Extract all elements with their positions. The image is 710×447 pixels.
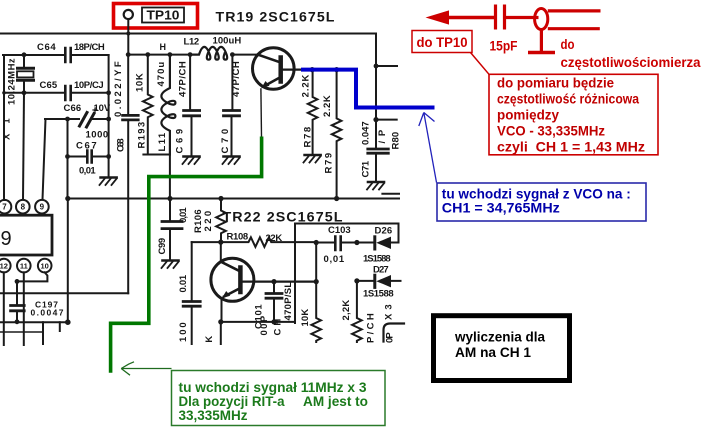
svg-text:R78: R78	[302, 127, 313, 148]
wire pin9 vertical	[43, 119, 46, 200]
svg-text:00P: 00P	[259, 315, 270, 335]
svg-text:470P/SL: 470P/SL	[283, 282, 294, 321]
wire C68 down long	[127, 120, 129, 293]
svg-text:9: 9	[1, 228, 12, 250]
wire stub x43	[42, 322, 44, 344]
red pointer line	[471, 53, 490, 75]
wire pin11 down	[23, 272, 25, 345]
svg-text:AM na CH 1: AM na CH 1	[455, 345, 531, 360]
transistor TR19	[252, 48, 313, 90]
wire pin8 vertical	[23, 93, 24, 200]
svg-text:C66: C66	[64, 103, 82, 114]
wire diode row y242.5	[314, 240, 399, 245]
capacitor C100 0.01/100	[178, 242, 200, 344]
svg-text:C99: C99	[157, 238, 168, 255]
inductor L12 100uH	[184, 36, 242, 60]
diode D26 1S1588	[363, 226, 393, 265]
svg-text:1S1588: 1S1588	[363, 254, 391, 265]
svg-text:H: H	[160, 42, 167, 52]
svg-text:tu wchodzi sygnał 11MHz x 3: tu wchodzi sygnał 11MHz x 3	[179, 380, 367, 395]
red label do TP10	[412, 31, 472, 53]
svg-text:czyli CH 1 = 1,43 MHz: czyli CH 1 = 1,43 MHz	[497, 139, 645, 154]
ground R78	[304, 155, 321, 163]
wire R193/L11 bottom row	[143, 155, 170, 199]
svg-text:D26: D26	[375, 226, 393, 237]
svg-text:0P: 0P	[385, 332, 396, 343]
svg-text:/P: /P	[377, 129, 388, 143]
ground left chain	[100, 178, 117, 186]
svg-text:2,2K: 2,2K	[341, 300, 352, 321]
wire x108.6 down + ground	[106, 90, 111, 177]
pin 9	[35, 200, 49, 214]
red probe jack	[528, 9, 601, 53]
red probe drawing: arrow	[426, 10, 497, 24]
wire TR19 emitter thin down	[260, 89, 263, 137]
ground C99	[162, 261, 179, 269]
wire row y332	[0, 331, 43, 333]
wire left row B y92.8	[4, 92, 109, 94]
node collector junctions	[310, 67, 340, 72]
wire C67 row y156.5	[65, 154, 111, 159]
wire row y322	[0, 321, 68, 323]
svg-text:220: 220	[203, 211, 214, 232]
resistor R79 2.2K	[322, 70, 341, 199]
svg-text:100uH: 100uH	[213, 36, 242, 47]
resistor 10K vertical	[300, 243, 321, 343]
svg-text:C103: C103	[328, 225, 351, 236]
svg-text:do TP10: do TP10	[417, 35, 468, 50]
IC box U1	[0, 215, 52, 255]
capacitor C66 electrolytic	[64, 103, 111, 141]
svg-text:9: 9	[40, 203, 45, 212]
capacitor C101 470P/SL	[253, 282, 294, 330]
node C71 top	[373, 117, 396, 122]
svg-text:CH1 = 34,765MHz: CH1 = 34,765MHz	[442, 201, 560, 216]
label P/CH	[366, 313, 377, 343]
svg-text:D27: D27	[373, 265, 389, 276]
svg-text:33,335MHz: 33,335MHz	[179, 408, 248, 423]
wire feedback top row y223.5	[295, 224, 399, 243]
wire bottom bus y293.3	[0, 292, 128, 294]
capacitor C64	[37, 42, 105, 62]
diode D27 1S1588	[363, 265, 394, 300]
svg-text:7: 7	[2, 203, 7, 212]
svg-text:0,01: 0,01	[79, 166, 96, 177]
svg-text:15pF: 15pF	[490, 39, 518, 54]
svg-text:częstotliwość różnicowa: częstotliwość różnicowa	[497, 92, 639, 107]
svg-text:11: 11	[20, 262, 28, 271]
inductor L11 470u	[156, 55, 175, 155]
wire green signal trace	[111, 137, 262, 373]
transistor TR22	[211, 242, 316, 322]
svg-text:0.01: 0.01	[178, 274, 189, 292]
svg-text:R80: R80	[391, 132, 402, 150]
svg-text:Dla pozycji RIT-a: Dla pozycji RIT-a	[179, 394, 285, 409]
svg-text:P/CH: P/CH	[366, 313, 377, 343]
svg-text:pomiędzy: pomiędzy	[497, 108, 559, 123]
pin 12	[0, 259, 11, 273]
svg-text:do: do	[561, 37, 575, 52]
red TP10 frame	[114, 4, 198, 29]
labels 00P CH	[259, 315, 284, 335]
capacitor C67	[76, 141, 97, 177]
svg-text:TR22 2SC1675L: TR22 2SC1675L	[223, 209, 344, 224]
capacitor C99 0,01	[157, 199, 189, 260]
wire C66 row y119	[45, 117, 111, 122]
resistor R106 220	[193, 199, 226, 243]
blue note box	[437, 183, 646, 221]
svg-text:C70: C70	[220, 129, 231, 154]
wire row A corner down to row B	[108, 55, 110, 93]
svg-text:0.022/YF: 0.022/YF	[113, 61, 124, 117]
svg-text:12: 12	[0, 262, 8, 271]
green note box	[172, 371, 386, 426]
svg-text:R79: R79	[324, 153, 335, 174]
pin 10	[38, 259, 52, 273]
pin 8	[16, 200, 30, 214]
svg-text:10P/CJ: 10P/CJ	[74, 80, 104, 91]
ground C69	[183, 157, 200, 165]
svg-text:X 3: X 3	[384, 304, 395, 320]
svg-text:2.2K: 2.2K	[322, 95, 333, 117]
svg-text:2.2K: 2.2K	[301, 74, 312, 97]
svg-text:L12: L12	[184, 37, 200, 48]
transistor label TR19	[216, 10, 336, 25]
svg-text:do pomiaru będzie: do pomiaru będzie	[497, 76, 614, 91]
wire x67.8 bus-to-row322	[65, 199, 71, 326]
svg-text:R193: R193	[137, 122, 148, 149]
node bus stub y66	[374, 64, 397, 69]
svg-text:1S1588: 1S1588	[363, 289, 394, 300]
svg-text:R108: R108	[227, 232, 249, 243]
wire stub x60	[59, 322, 61, 331]
svg-text:tu wchodzi sygnał z VCO na :: tu wchodzi sygnał z VCO na :	[442, 187, 631, 202]
capacitor C71 0.047/P	[361, 120, 389, 181]
wire bus right corner down	[375, 34, 377, 120]
svg-text:K: K	[204, 335, 215, 342]
wire main mid bus y198.5	[65, 196, 399, 201]
wire emitter stub down + K label	[204, 322, 221, 344]
svg-text:10K: 10K	[300, 309, 311, 327]
svg-text:L11: L11	[157, 132, 168, 151]
transistor label TR22	[223, 209, 344, 224]
wire base row + resistor R108 22K	[192, 232, 317, 247]
wire D27 row y280.9	[354, 278, 400, 283]
node crystal top	[22, 52, 27, 57]
svg-text:8: 8	[21, 203, 26, 212]
capacitor C70 47P/CH	[220, 55, 242, 156]
svg-text:TP10: TP10	[147, 9, 180, 23]
resistor R80 label and stub	[382, 132, 401, 194]
red capacitor 15pF	[496, 5, 539, 30]
red label 15pF	[490, 39, 518, 54]
wire oscillator row y54.6	[128, 52, 258, 57]
wire top supply bus	[0, 33, 376, 35]
resistor R193 10K	[135, 55, 153, 155]
wire feedback vertical x293.3	[294, 224, 296, 324]
black note box	[434, 316, 570, 381]
svg-text:VCO - 33,335MHz: VCO - 33,335MHz	[497, 123, 605, 138]
capacitor C103 0,01	[324, 225, 352, 265]
wire pin12 down	[3, 272, 5, 345]
svg-text:C67: C67	[76, 141, 97, 152]
resistor 2.2K vertical	[341, 281, 362, 342]
wire green arrow thin	[121, 362, 171, 375]
pin 11	[17, 259, 31, 273]
svg-text:470u: 470u	[156, 62, 167, 87]
red label do czestotliwosciomierza	[561, 37, 701, 70]
svg-text:10K: 10K	[135, 73, 146, 92]
svg-text:wyliczenia dla: wyliczenia dla	[454, 330, 545, 345]
svg-text:22K: 22K	[266, 233, 283, 244]
wire left row A y55	[3, 54, 109, 56]
pin 7	[0, 200, 11, 214]
red note box	[489, 74, 658, 155]
connector corner X3	[384, 304, 405, 343]
svg-text:częstotliwościomierza: częstotliwościomierza	[561, 55, 701, 70]
svg-text:TR19 2SC1675L: TR19 2SC1675L	[216, 10, 336, 25]
wire mid vertical x67.5	[67, 119, 69, 199]
svg-text:18P/CH: 18P/CH	[74, 42, 105, 53]
svg-text:0.047: 0.047	[361, 121, 372, 145]
wire TP10/C68 vertical	[126, 52, 131, 115]
test point TP10	[124, 8, 184, 55]
svg-text:C69: C69	[174, 129, 185, 154]
svg-text:C68: C68	[115, 138, 126, 152]
svg-text:C71: C71	[361, 160, 372, 177]
capacitor C68	[113, 61, 138, 152]
svg-text:47P/CH: 47P/CH	[231, 61, 242, 97]
resistor R78 2.2K	[301, 70, 318, 154]
crystal X1 10.24MHz	[2, 55, 34, 140]
ground C71	[367, 182, 384, 190]
svg-text:0,01: 0,01	[324, 254, 345, 265]
svg-text:AM jest to: AM jest to	[303, 394, 368, 409]
node H label	[160, 42, 167, 52]
svg-text:10: 10	[41, 262, 49, 271]
svg-text:100: 100	[178, 322, 189, 342]
wire blue arrow thin	[419, 113, 437, 183]
svg-text:C65: C65	[40, 80, 58, 91]
ground C70	[223, 157, 240, 165]
capacitor C197 0.0047	[11, 281, 64, 324]
wire TR22 emitter row y321.9	[218, 319, 295, 324]
svg-text:0,01: 0,01	[178, 207, 189, 223]
node TR22 collector row	[271, 279, 318, 284]
wire pin10 jog to C197	[15, 272, 48, 283]
node TP10 crosses bus	[126, 32, 130, 36]
capacitor C69 47P/CH	[174, 55, 199, 156]
capacitor C65	[40, 80, 105, 100]
svg-text:10.24MHz: 10.24MHz	[7, 58, 18, 105]
node TR22 base	[218, 240, 223, 245]
svg-text:47P/CH: 47P/CH	[178, 61, 189, 97]
wire pin7 vertical	[2, 55, 6, 200]
svg-text:C64: C64	[37, 42, 56, 53]
svg-text:1000: 1000	[86, 130, 109, 141]
node crystal bottom	[22, 90, 27, 95]
wire blue VCO trace	[301, 70, 435, 108]
